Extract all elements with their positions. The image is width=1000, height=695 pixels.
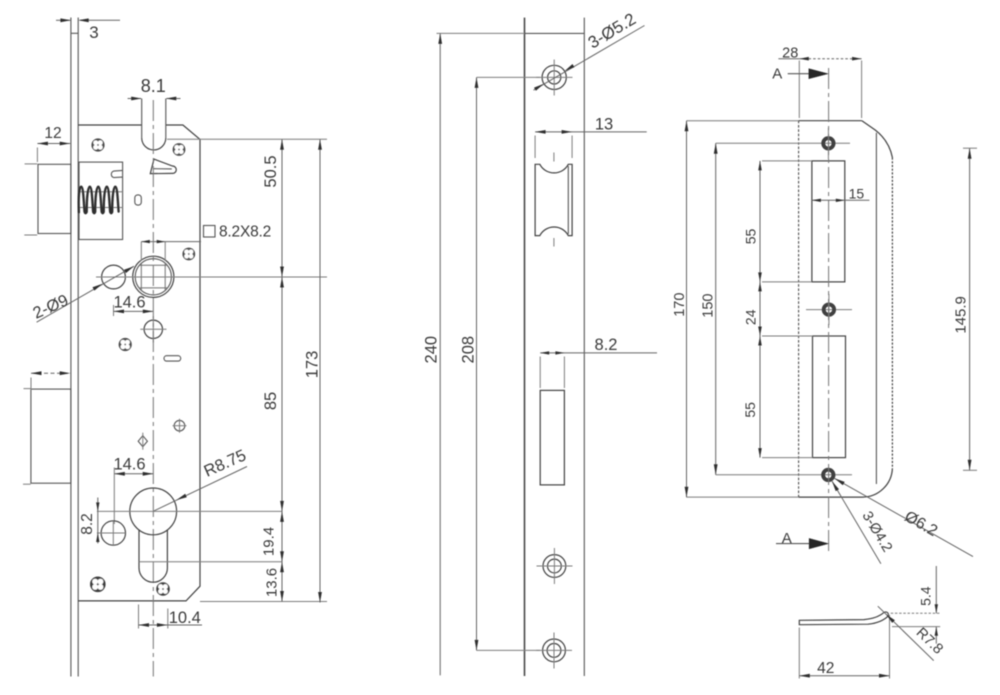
strike plate top-right corner arc <box>862 121 893 158</box>
svg-text:10.4: 10.4 <box>169 609 201 627</box>
svg-text:170: 170 <box>672 293 688 317</box>
position diamond symbol <box>138 436 147 447</box>
strike plate bottom-right corner arc <box>862 468 892 497</box>
dimension 240 <box>439 33 441 675</box>
dimension 150 <box>715 143 717 475</box>
bottom screw hole <box>477 649 541 651</box>
svg-text:A: A <box>772 65 782 82</box>
svg-text:8.2: 8.2 <box>79 513 96 535</box>
lower left protruding box <box>31 389 71 483</box>
screw head mid-left <box>119 338 132 351</box>
strike plate top edge <box>799 120 862 122</box>
strike plate centreline <box>828 68 830 553</box>
spindle hub outer circle <box>133 256 174 297</box>
extension line neck arc centre y=561.8 <box>139 561 282 563</box>
svg-text:14.6: 14.6 <box>113 456 145 474</box>
svg-text:3: 3 <box>89 23 98 42</box>
spring channel lines <box>79 191 123 193</box>
dimension 8.2 slot width <box>540 352 657 354</box>
leader R7.8 <box>878 606 934 660</box>
leader dia6.2 <box>835 478 973 556</box>
svg-text:85: 85 <box>262 392 280 410</box>
leader 3-dia4.2 <box>832 481 881 564</box>
small pin slot right of spring box <box>135 195 142 205</box>
leader 3-dia5.2 <box>534 26 645 91</box>
hub horizontal centreline / 50.5-85 boundary extension <box>96 276 327 278</box>
dimension 42 <box>798 628 800 679</box>
hole dia small left of cylinder <box>101 521 125 545</box>
svg-text:28: 28 <box>782 46 798 62</box>
svg-text:55: 55 <box>742 229 758 245</box>
euro cylinder circle R8.75 <box>130 488 177 535</box>
spring box tab <box>111 170 122 177</box>
strike slot upper <box>812 161 845 282</box>
top screw hole 3-dia5.2 <box>477 76 541 78</box>
strike screw hole middle <box>806 309 852 311</box>
faceplate side view top edge <box>525 32 585 34</box>
svg-text:240: 240 <box>423 336 441 364</box>
svg-text:19.4: 19.4 <box>261 527 278 556</box>
screw right of hub lower <box>182 248 195 261</box>
coil spring <box>79 187 119 213</box>
svg-text:12: 12 <box>44 125 61 142</box>
upper left protruding box <box>38 164 71 233</box>
svg-text:55: 55 <box>742 402 758 418</box>
dimension 8.2X8.2 with square symbol <box>140 242 142 261</box>
dimension 14.6 upper <box>113 305 115 316</box>
dimension 145.9 <box>963 147 977 149</box>
latch roller (front) <box>535 164 572 235</box>
square follower hole 8.2x8.2 (chord lines) <box>139 264 167 266</box>
extension lines slots to chain <box>762 160 812 162</box>
svg-text:50.5: 50.5 <box>262 155 280 187</box>
svg-text:42: 42 <box>817 660 834 677</box>
middle screw hole <box>543 555 566 578</box>
dimension 173 overall <box>319 139 321 602</box>
centreline dashes at roller <box>553 153 555 162</box>
dimension 10.4 (neck width) <box>138 605 140 629</box>
svg-text:145.9: 145.9 <box>952 296 969 334</box>
slot 8.2 in faceplate <box>540 390 564 485</box>
svg-text:24: 24 <box>743 309 759 325</box>
strike plate fold line <box>875 133 877 484</box>
svg-text:13: 13 <box>595 116 613 134</box>
dimension 28 <box>798 61 800 119</box>
dimension 15 (slot width) <box>812 199 870 201</box>
spring box <box>79 162 123 239</box>
spindle hub inner circle <box>135 259 171 295</box>
dimension chain 55 / 24 / 55 <box>759 161 761 458</box>
extension of case bottom <box>200 601 327 603</box>
svg-text:A: A <box>782 530 792 547</box>
small horizontal slot <box>164 356 181 361</box>
svg-text:5.4: 5.4 <box>918 586 934 606</box>
dimension 3 (faceplate thickness) <box>56 19 70 21</box>
dimension 8.1 (latch width) <box>128 98 141 100</box>
leader 2-dia9 <box>37 266 134 322</box>
screw head upper-right <box>173 143 186 156</box>
cylinder neck <box>138 530 140 568</box>
strike plate bottom edge <box>799 496 862 498</box>
svg-text:208: 208 <box>459 336 477 364</box>
dark screw at neck bottom <box>156 582 170 596</box>
dimension chain 50.5 / 85 / 19.4 / 13.6 <box>281 139 283 601</box>
dimension 170 <box>686 121 688 498</box>
svg-text:150: 150 <box>700 293 716 317</box>
dimension 14.6 lower <box>113 468 115 525</box>
dimension 5.4 (lip height) <box>891 612 941 614</box>
faceplate top edge <box>71 32 78 34</box>
svg-text:173: 173 <box>304 351 322 379</box>
svg-text:8.2: 8.2 <box>595 336 618 354</box>
bent lip profile (section) <box>799 612 888 625</box>
svg-text:8.2X8.2: 8.2X8.2 <box>219 224 271 241</box>
lock faceplate (front view) left edge <box>70 18 72 677</box>
svg-text:13.6: 13.6 <box>264 568 281 597</box>
dimension 13 (roller width) <box>534 136 536 159</box>
dimension 208 <box>476 77 478 650</box>
strike slot lower <box>813 336 846 458</box>
dimension 8.2 (cylinder center to hole) <box>97 510 282 512</box>
latch bolt at top <box>141 99 143 138</box>
svg-text:14.6: 14.6 <box>113 294 145 312</box>
vertical dash-dot centreline of lock <box>152 100 154 677</box>
strike plate outer folded edge <box>891 158 893 469</box>
svg-text:15: 15 <box>849 185 865 201</box>
extension line at latch arc centre y=139 <box>167 138 327 140</box>
leader R8.75 <box>153 467 247 512</box>
hole 2-dia9 left of hub <box>102 265 126 289</box>
dark screw bottom-left <box>90 577 106 593</box>
lock faceplate right edge <box>77 18 79 677</box>
lock case outline <box>78 125 200 601</box>
dimension 12 <box>36 148 38 163</box>
screw head upper-left <box>91 138 104 151</box>
faceplate side view right edge <box>583 18 585 676</box>
small cross circle <box>174 420 185 431</box>
strike screw hole top <box>716 142 850 144</box>
strike plate left edge <box>798 121 800 497</box>
svg-text:8.1: 8.1 <box>141 76 166 96</box>
locking wedge cam <box>150 159 176 174</box>
unlabeled width dimension of lower box <box>30 378 32 391</box>
circle with crosshair below hub <box>144 320 162 338</box>
strike screw hole bottom <box>716 474 852 476</box>
faceplate side view left edge <box>524 18 526 676</box>
